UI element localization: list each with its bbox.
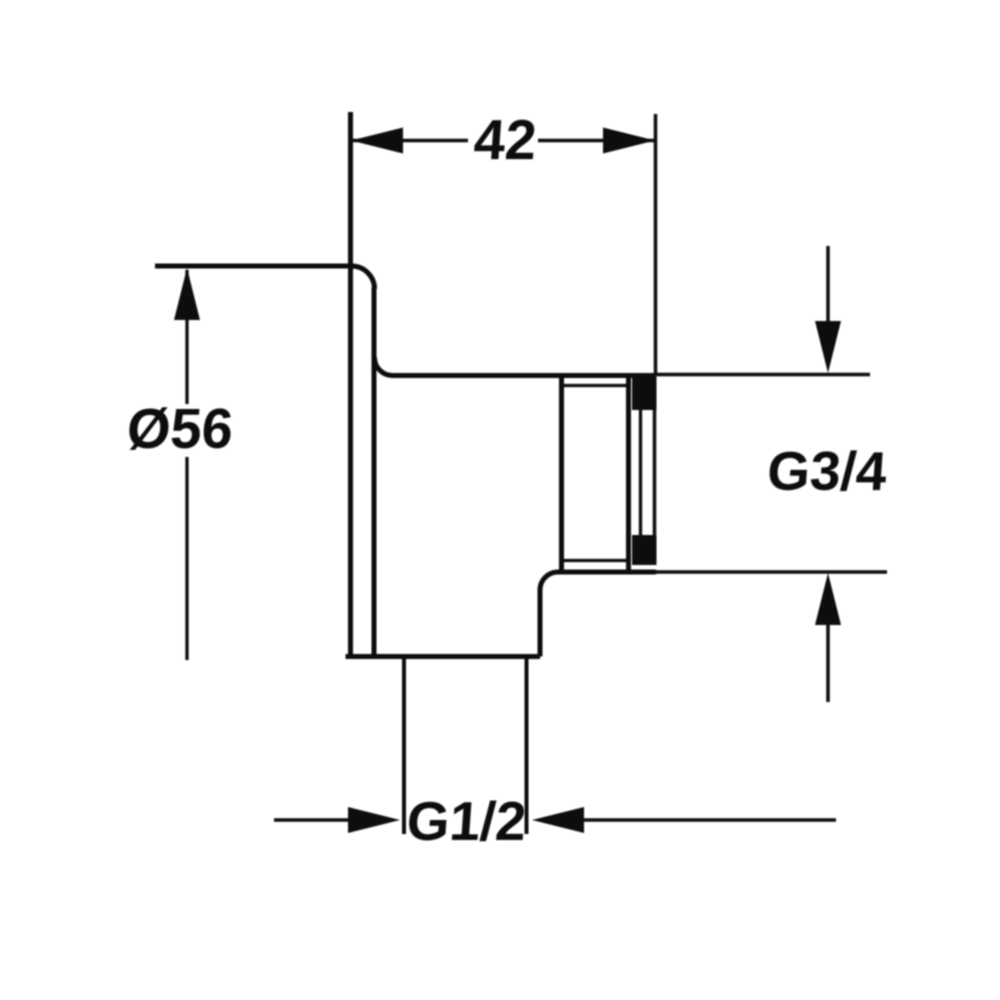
dimension G1/2 right arrow: [532, 807, 584, 833]
wire pipe right edge: [525, 656, 529, 834]
dimension 42 right arrow: [603, 128, 655, 154]
wire flange top-right rounded corner: [351, 266, 375, 289]
dimension diameter 56 line lower segment: [185, 457, 188, 660]
thread bottom block: [632, 535, 657, 565]
dimension G3/4 upper arrow: [815, 321, 841, 373]
wire nut inner top line: [563, 384, 629, 387]
wire flange left edge / 42 left extension line: [348, 112, 353, 658]
thread top block: [632, 377, 657, 411]
wire fillet body step: [540, 572, 558, 590]
wire nut left edge: [559, 375, 564, 573]
wire body step vertical: [538, 588, 543, 657]
svg-text:G1/2: G1/2: [405, 790, 529, 852]
wire fillet flange to body top: [374, 357, 392, 376]
wire connector bottom edge: [558, 570, 656, 575]
dimension 42 left arrow: [351, 128, 403, 154]
svg-text:Ø56: Ø56: [125, 397, 235, 460]
dimension 42 line right segment: [538, 139, 655, 143]
wire G3/4 bottom extension line: [656, 570, 887, 574]
wire flange top edge / diameter extension line: [155, 264, 352, 269]
wire nut right edge: [626, 375, 631, 573]
dimension diameter 56 line upper segment: [185, 270, 188, 404]
dimension G1/2 line right segment: [580, 818, 836, 822]
svg-text:G3/4: G3/4: [765, 440, 889, 502]
dimension diameter 56 up arrow: [174, 268, 200, 320]
wire thread inner line: [639, 410, 642, 535]
wire nut inner bottom line: [563, 559, 629, 562]
dimension G3/4 upper arrow line: [826, 246, 830, 324]
svg-text:42: 42: [472, 108, 539, 171]
dimension G1/2 left arrow: [348, 807, 400, 833]
dimension 42 line left segment: [351, 139, 468, 143]
dimension G3/4 lower arrow: [815, 573, 841, 625]
wire body bottom edge: [346, 654, 541, 659]
wire flange right edge: [372, 287, 377, 658]
wire body top edge: [391, 373, 656, 378]
wire thread outer line: [653, 410, 657, 535]
dimension 42 right extension line: [654, 114, 658, 375]
wire pipe left edge: [402, 656, 406, 834]
dimension G3/4 lower arrow line: [826, 624, 830, 702]
wire G3/4 top extension line: [656, 373, 870, 377]
dimension G1/2 line left segment: [274, 818, 352, 822]
